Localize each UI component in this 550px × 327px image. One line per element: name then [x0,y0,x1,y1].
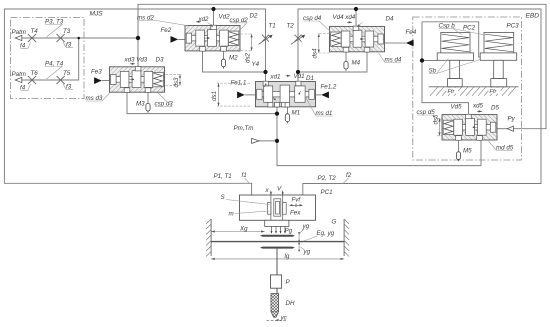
node xd3/MJS tap [136,36,140,40]
wire D1 bottom drain down, right and up to D5 bottom [277,107,481,166]
wire EBD: Sb node to PC2 plate [422,60,437,62]
wire Py stub to D5 [497,128,507,130]
leader ms d2 [138,21,189,26]
MJS dash-dot box [11,18,85,99]
svg-text:Eg, yg: Eg, yg [317,230,335,237]
node Pm,Tm junction [275,139,279,143]
svg-text:ds3: ds3 [173,77,180,88]
valve labels D4 [303,14,402,63]
datum line yc [267,319,288,321]
svg-text:f2: f2 [346,172,352,179]
svg-text:G: G [332,219,337,226]
svg-text:PC3: PC3 [507,23,520,30]
leader xd4 port arrow [358,22,363,26]
arrow xd4 [347,21,352,23]
svg-text:Fvf: Fvf [292,197,302,204]
svg-text:MJS: MJS [90,11,104,18]
wire net xd3/Py: upper wire from D3 pilot to Py arrow [138,4,546,128]
leader csp d4 [304,21,333,33]
wire MJS row1 [22,37,138,39]
node D3 drain junction [275,112,279,116]
dimension ds5 [437,118,443,136]
svg-text:yg: yg [302,223,310,230]
force arrow Fe4 [406,40,414,47]
mass element M5 [458,140,460,152]
arrow Vd1 [286,75,291,77]
node MJS rows join [77,37,80,40]
leader Sb [429,59,480,74]
throttle T6 [28,76,36,84]
dimension ds1 [217,83,250,106]
svg-text:M3: M3 [136,101,145,108]
drill/hone tool DH [271,294,279,312]
svg-text:P: P [286,279,291,286]
svg-text:Xg: Xg [239,226,248,233]
svg-text:P1, T1: P1, T1 [214,173,232,180]
svg-text:Sb: Sb [429,68,437,75]
svg-text:D5: D5 [491,105,499,112]
svg-text:ds5: ds5 [433,114,440,125]
chuck block P [271,275,282,288]
leader csp d5 [417,115,444,122]
svg-text:Fex: Fex [290,210,301,217]
valve D4 (mirrored) [330,26,385,52]
throttle T2 [291,35,305,45]
arrow Py [507,126,513,131]
svg-text:Fe4: Fe4 [406,29,417,36]
svg-text:D3: D3 [156,57,164,64]
leader csp d3 [155,93,172,107]
svg-text:S: S [221,194,226,201]
svg-text:x: x [265,187,270,194]
wire MJS row2 [22,38,79,80]
wire Pm,Tm stub [259,140,277,142]
svg-text:PC2: PC2 [463,25,476,32]
gap dimension yg lower [298,244,300,251]
upper friction pad [260,235,295,237]
indicator V on PC1 [282,191,284,196]
wire net P2/T2: top-right loop from T2 branch to PC1 right port [298,9,541,195]
plunger PC2 [437,32,473,86]
wire D4 bottom port to Vd1 junction [298,52,367,72]
valve labels D2 [137,13,260,69]
wire EBD: top link to PC3 plate [422,22,480,57]
svg-text:Ffr: Ffr [490,89,498,95]
svg-text:f1: f1 [242,172,247,179]
valve labels D1 [270,73,333,117]
svg-text:T2: T2 [287,23,295,30]
svg-text:Py: Py [508,116,516,123]
wire D2 bottom port to xd1 junction [203,51,266,72]
svg-text:Fe1,2: Fe1,2 [321,84,337,91]
svg-text:M5: M5 [463,148,472,155]
valve labels D5 [417,103,514,152]
svg-text:lg: lg [285,253,290,260]
Patm vent arrow row2 [15,77,22,82]
svg-text:Vd2: Vd2 [219,14,231,21]
wire net P1/T1: top-left loop from T1 branch to PC1 left port [4,9,265,195]
svg-text:T3: T3 [63,28,71,35]
leader f3 row1 [63,42,73,48]
svg-text:xd5: xd5 [472,103,484,110]
gap dimension yg upper [298,233,300,241]
force arrow Fe2 [171,36,179,43]
svg-text:P2, T2: P2, T2 [318,175,337,182]
contact legs with Pg arrows [272,226,286,233]
svg-text:T6: T6 [31,70,39,77]
svg-text:Fe3: Fe3 [91,69,102,76]
leader f3 row2 [63,84,73,90]
svg-text:M4: M4 [352,60,361,67]
slider foot under PC1 [265,220,289,226]
arrow xd3 [130,63,135,65]
svg-text:PC1: PC1 [321,189,333,196]
svg-text:ds2: ds2 [244,52,251,63]
lower friction pad [260,247,295,249]
svg-text:M2: M2 [229,55,238,62]
svg-text:ds4: ds4 [312,48,319,59]
leader ms d4 [379,53,402,63]
svg-text:M1: M1 [292,110,301,117]
leader md d5 [489,141,513,151]
svg-text:T5: T5 [63,70,71,77]
mass element M3 [147,92,149,103]
svg-text:Vd1: Vd1 [294,73,305,80]
valve D2 [185,25,240,51]
mass element M4 [345,52,347,62]
leader ms d3 [86,93,110,102]
dimension ds4 [318,34,330,53]
svg-text:ds1: ds1 [211,91,218,101]
node Sb junction [420,58,424,62]
guideway table [211,241,344,243]
dimension ds2 [241,34,253,51]
svg-text:m: m [229,211,234,218]
ground floor EBD [429,86,519,88]
svg-text:xd3 Vd3: xd3 Vd3 [124,57,148,64]
force arrow Fe1,2 [321,92,329,99]
wire D3 bottom port to D1 drain net [127,92,277,114]
throttle T5 [57,76,65,84]
arrow Pm,Tm [252,138,259,143]
leader ms d1 [305,96,333,116]
svg-text:Y4: Y4 [252,61,260,68]
svg-text:D4: D4 [386,16,394,23]
EBD dash-dot box [413,17,522,160]
svg-text:Patm: Patm [12,29,26,36]
leader xd2 port arrow [208,22,213,26]
force arrow Fe1,1 [237,92,245,99]
wire D4 top pilot stub [355,9,357,26]
node D4 pilot tap [354,7,358,11]
mass element M2 [223,51,225,59]
svg-text:Vd5: Vd5 [451,104,463,111]
svg-text:EBD: EBD [526,12,540,19]
valve D5 (mirrored) [442,114,497,140]
dimension Xg [211,231,265,233]
throttle T4 [28,34,36,42]
arrow xd5 [477,110,482,112]
valve D3 [110,67,165,93]
svg-text:Pg: Pg [285,228,293,235]
svg-text:Ffr: Ffr [448,89,456,95]
tool rod [276,249,278,275]
valve D1 (servo spool, grey body) [256,81,316,107]
PC1 spool body [240,195,316,220]
mass element M1 [286,107,288,114]
leader f4 row2 [21,84,31,91]
svg-text:Vd4 xd4: Vd4 xd4 [333,14,356,21]
node xd1 junction [263,70,267,74]
force arrow Fe3 [94,77,102,84]
svg-text:Fe2: Fe2 [161,27,172,34]
leader P3,T3 [45,25,62,38]
svg-text:T4: T4 [31,28,39,35]
plunger PC3 [480,32,517,86]
leader Csp b [439,29,485,36]
right wall [344,219,349,257]
svg-text:Pm,Tm: Pm,Tm [234,125,254,132]
label Ffr right [489,88,501,94]
svg-text:D2: D2 [250,13,258,20]
svg-text:DH: DH [286,300,295,307]
throttle T3 [57,34,65,42]
leader P4,T4 [45,67,62,80]
tool shank [276,288,278,293]
svg-text:D1: D1 [306,75,314,82]
dimension ds3 [166,74,182,85]
left wall [206,219,211,257]
valve labels D3 [86,57,174,108]
leader f4 row1 [21,42,31,49]
svg-text:T1: T1 [269,23,276,30]
node D2 pilot tap [211,7,215,11]
dimension lg [211,258,344,260]
label Ffr left [447,88,459,94]
Patm vent arrow row1 [15,35,22,40]
wire D2 top pilot stub [213,9,215,26]
leader csp d2 [230,23,247,32]
wire EBD: Sb node down to D5 Vd5 port [422,22,469,115]
indicator x on PC1 [270,191,272,196]
svg-text:yc: yc [280,315,288,322]
svg-text:V: V [277,186,282,193]
MJS contents [28,34,65,84]
node Vd1 junction [296,70,300,74]
throttle T1 [259,35,273,45]
svg-text:Patm: Patm [12,71,26,78]
arrow xd2 [196,21,201,23]
svg-text:xd1: xd1 [270,74,281,81]
